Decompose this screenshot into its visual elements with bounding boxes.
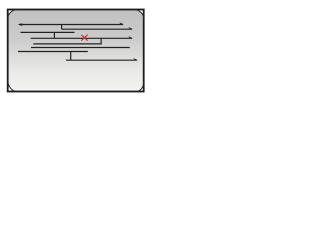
arrowhead right of L2b — [128, 27, 133, 29]
corner arc bottom-right — [136, 82, 144, 92]
arrowhead right of L8 — [133, 58, 138, 60]
wire L8 — [66, 59, 137, 61]
wire L7 — [18, 51, 88, 53]
corner arc top-left — [8, 10, 18, 19]
wire L2b — [62, 28, 132, 30]
corner arc top-right — [134, 10, 144, 19]
arrowhead left of L1 — [18, 23, 22, 26]
panel border (square outer rect) — [8, 10, 144, 92]
wire V4 — [70, 52, 72, 61]
wire L6 — [31, 47, 130, 49]
wire L1 — [19, 24, 123, 26]
arrowhead right of L4 — [128, 36, 133, 38]
red X fault mark — [82, 35, 88, 40]
wire L2a — [21, 31, 75, 33]
arrowhead right of L1 — [119, 22, 124, 24]
panel fill (rounded) — [8, 10, 144, 92]
wire L4 — [31, 37, 132, 39]
wire V2 — [53, 32, 55, 38]
wire V3 — [100, 38, 102, 44]
wire L5 — [33, 43, 102, 45]
corner arc bottom-left — [8, 80, 18, 92]
wire V1 — [61, 25, 63, 30]
